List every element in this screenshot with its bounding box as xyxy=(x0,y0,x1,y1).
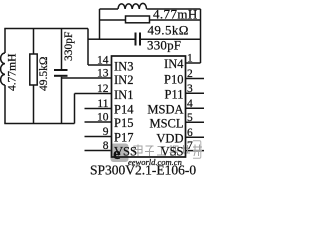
wire: left network top rail xyxy=(4,28,88,30)
svg-text:MSCL: MSCL xyxy=(149,116,183,130)
capacitor C2 leads 330pF xyxy=(100,38,201,40)
resistor R1 body 49.5kOhm xyxy=(30,54,37,85)
svg-text:13: 13 xyxy=(97,68,109,80)
svg-text:6: 6 xyxy=(187,127,193,139)
resistor R1 leads xyxy=(33,29,35,124)
svg-text:VSS: VSS xyxy=(161,145,184,159)
svg-text:P15: P15 xyxy=(114,116,133,130)
svg-text:4.77mH: 4.77mH xyxy=(7,54,19,91)
inductor L1 coil 4.77mH xyxy=(1,53,5,85)
svg-text:14: 14 xyxy=(97,55,109,67)
svg-text:4: 4 xyxy=(187,98,193,110)
svg-text:330pF: 330pF xyxy=(63,32,75,61)
wire: pin 12 (IN1) xyxy=(75,93,112,95)
svg-text:7: 7 xyxy=(187,140,193,152)
wire: pin 9 stub (P17) xyxy=(85,136,112,138)
svg-text:SP300V2.1-E106-0: SP300V2.1-E106-0 xyxy=(90,163,196,178)
svg-text:3: 3 xyxy=(187,83,193,95)
svg-text:IN3: IN3 xyxy=(114,60,133,74)
svg-text:VDD: VDD xyxy=(156,131,183,145)
wire: pin 14 (IN3) xyxy=(88,64,112,66)
wire: link to right network cap line xyxy=(88,38,100,40)
resistor R2 body 49.5kOhm xyxy=(126,16,150,23)
svg-text:P11: P11 xyxy=(165,87,184,101)
inductor L2 leads 4.77mH xyxy=(100,8,201,10)
wire: pin 3 (P11) xyxy=(186,92,205,94)
svg-text:VSS: VSS xyxy=(114,145,137,159)
svg-text:330pF: 330pF xyxy=(147,38,181,53)
svg-text:11: 11 xyxy=(97,98,108,110)
wire: riser from top rail down to pin 14 xyxy=(87,29,89,66)
watermark CJK text 电子工程世界 (pseudo-glyphs) xyxy=(134,145,202,157)
svg-text:P17: P17 xyxy=(114,131,133,145)
watermark frame fragment xyxy=(193,141,201,158)
svg-text:IN2: IN2 xyxy=(114,73,133,87)
wire: pin 7 (VSS) xyxy=(186,150,205,152)
wire: right network right rail down to pin 1 xyxy=(200,9,202,63)
wire: pin 4 (MSDA) xyxy=(186,107,205,109)
svg-text:P14: P14 xyxy=(114,103,134,117)
svg-text:IN1: IN1 xyxy=(114,88,133,102)
wire: pin 8 stub (VSS) xyxy=(85,150,112,152)
wire: riser from bottom rail up to pin 12 xyxy=(74,94,76,124)
inductor L1 leads xyxy=(4,29,6,124)
inductor L2 coil xyxy=(118,3,147,9)
wire: pin 10 stub (P15) xyxy=(85,121,112,123)
capacitor C2 plates xyxy=(136,33,141,46)
IC U1 body SP300 xyxy=(112,56,186,157)
svg-text:5: 5 xyxy=(187,112,193,124)
wire: pin 6 (VDD) xyxy=(186,136,205,138)
capacitor C1 plates xyxy=(54,70,68,76)
wire: pin 11 stub (P14) xyxy=(85,108,112,110)
wire: pin 5 (MSCL) xyxy=(186,121,205,123)
wire: left network bottom rail xyxy=(4,123,74,125)
wire: pin 13 (IN2) from capacitor bottom xyxy=(62,77,112,79)
svg-text:2: 2 xyxy=(187,68,193,80)
wire: pin 2 (P10) xyxy=(186,78,205,80)
svg-text:12: 12 xyxy=(97,83,109,95)
svg-text:8: 8 xyxy=(103,140,109,152)
wire: right network left rail xyxy=(99,9,101,39)
svg-text:49.5kΩ: 49.5kΩ xyxy=(148,23,189,38)
svg-text:49.5kΩ: 49.5kΩ xyxy=(38,57,50,91)
svg-text:1: 1 xyxy=(187,53,193,65)
resistor R2 leads xyxy=(100,19,201,21)
svg-text:10: 10 xyxy=(97,112,109,124)
watermark logo box xyxy=(111,144,129,164)
svg-text:MSDA: MSDA xyxy=(147,102,183,116)
svg-text:4.77mH: 4.77mH xyxy=(153,7,198,22)
svg-text:9: 9 xyxy=(103,126,109,138)
capacitor C1 leads 330pF xyxy=(61,29,63,124)
svg-text:P10: P10 xyxy=(164,73,183,87)
wire: pin 1 (IN4) xyxy=(186,62,201,64)
svg-text:IN4: IN4 xyxy=(164,57,184,71)
